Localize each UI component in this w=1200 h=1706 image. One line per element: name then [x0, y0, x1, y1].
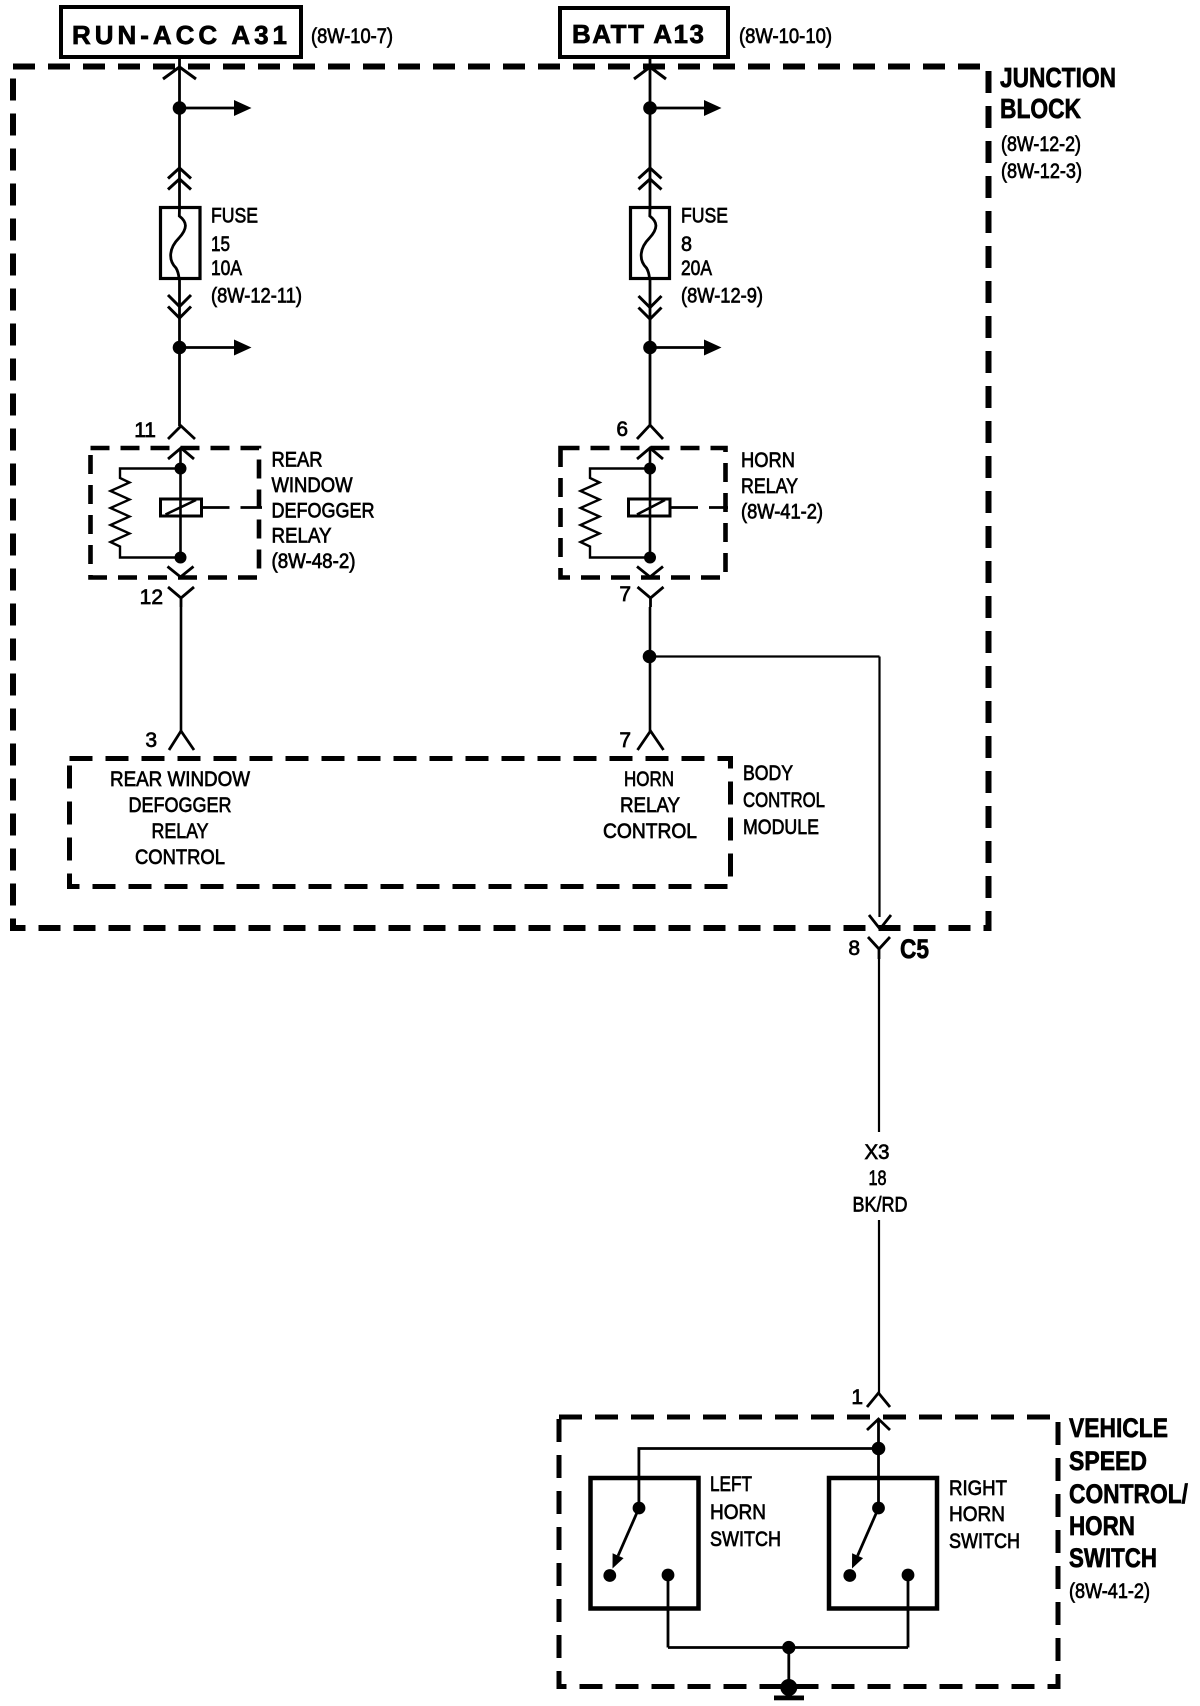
pin 7 (BCM horn relay control) [619, 729, 663, 752]
label: HORN RELAY CONTROL [603, 768, 697, 843]
svg-text:X3: X3 [865, 1141, 890, 1164]
wire: left lower branch arrow [180, 340, 252, 356]
wire: RUN-ACC A31 feed down to fuse 15 [178, 59, 181, 208]
svg-text:1: 1 [851, 1386, 863, 1409]
svg-text:FUSE: FUSE [681, 205, 728, 228]
pin 7 (relay K1 output) [619, 583, 663, 607]
junction block boundary [13, 67, 989, 929]
svg-text:15: 15 [211, 233, 230, 256]
body control module boundary [70, 759, 731, 887]
pin 3 [145, 729, 194, 752]
connector C5 arrow at junction block exit [869, 915, 891, 929]
label (8W-10-7) [311, 25, 393, 48]
svg-text:SWITCH: SWITCH [949, 1530, 1020, 1553]
node: S2 common terminal dot [872, 1502, 885, 1515]
power feed box BATT A13 [560, 8, 728, 57]
wire: X3 down to horn switch pin 1 [878, 1220, 880, 1393]
wire: right lower branch arrow [650, 340, 722, 356]
label: LEFT HORN SWITCH [710, 1473, 781, 1551]
svg-text:7: 7 [619, 583, 631, 606]
svg-text:C5: C5 [900, 934, 929, 964]
wire: relay pin 12 to BCM pin 3 [180, 607, 183, 731]
node: left feed splice dot [173, 101, 187, 115]
wire: ground drop [787, 1648, 790, 1688]
connector chevron inside relay K1 [637, 448, 663, 459]
svg-text:HORN: HORN [710, 1501, 766, 1524]
svg-text:(8W-12-3): (8W-12-3) [1001, 160, 1082, 183]
label: HORN RELAY (8W-41-2) [741, 449, 823, 524]
wire: fuse 8 to horn relay pin 6 [649, 278, 652, 425]
node: S1 lower-left terminal dot [603, 1569, 616, 1582]
svg-text:BODY: BODY [743, 762, 793, 785]
svg-text:CONTROL/: CONTROL/ [1069, 1479, 1188, 1509]
svg-text:8: 8 [848, 937, 860, 960]
switch S1 LEFT HORN SWITCH box [591, 1478, 699, 1609]
pin 1 [851, 1386, 890, 1409]
svg-text:HORN: HORN [1069, 1511, 1135, 1541]
node: relay K1 top dot [644, 463, 656, 475]
vehicle speed control / horn switch boundary [559, 1417, 1058, 1687]
wire: relay K1 contact control stub (dashed) [670, 506, 728, 509]
connector chevron at relay K2 exit [168, 567, 194, 578]
svg-text:(8W-41-2): (8W-41-2) [1069, 1580, 1150, 1603]
wire: relay K2 contact control stub (dashed) [202, 506, 263, 509]
pin 6 [616, 418, 663, 441]
svg-text:20A: 20A [681, 257, 712, 280]
connector chevron at relay K1 exit [637, 567, 663, 578]
wire: left feed branch arrow [180, 100, 252, 116]
svg-text:FUSE: FUSE [211, 205, 258, 228]
svg-text:CONTROL: CONTROL [743, 789, 825, 812]
svg-text:18: 18 [869, 1167, 887, 1190]
svg-text:RELAY: RELAY [152, 820, 209, 843]
connector: double chevron below fuse 15 [168, 295, 191, 318]
svg-text:(8W-10-10): (8W-10-10) [739, 25, 832, 48]
svg-text:SWITCH: SWITCH [710, 1528, 781, 1551]
svg-text:RUN-ACC A31: RUN-ACC A31 [72, 20, 287, 50]
node: right feed splice dot [643, 101, 657, 115]
label: RIGHT HORN SWITCH [949, 1477, 1020, 1553]
pin 11 [134, 419, 195, 442]
svg-text:(8W-10-7): (8W-10-7) [311, 25, 393, 48]
connector chevron at junction block entry (right) [634, 67, 666, 79]
svg-text:(8W-12-9): (8W-12-9) [681, 285, 763, 308]
node: S2 lower-left terminal dot [843, 1569, 856, 1582]
node: left lower splice dot [173, 341, 187, 355]
node: right lower splice dot [643, 341, 657, 355]
label: REAR WINDOW DEFOGGER RELAY (8W-48-2) [272, 449, 375, 574]
fuse F8 [631, 208, 670, 279]
node: S1 common terminal dot [633, 1502, 646, 1515]
wire: S1 output down to ground bus [667, 1575, 670, 1648]
pin 8 [848, 937, 860, 960]
label: connector C5 [900, 934, 929, 964]
svg-text:HORN: HORN [949, 1503, 1005, 1526]
label: FUSE 15 10A (8W-12-11) [211, 205, 302, 308]
svg-text:REAR WINDOW: REAR WINDOW [110, 768, 250, 791]
relay K2 coil (zigzag) [111, 469, 181, 558]
label: VEHICLE SPEED CONTROL/ HORN SWITCH (8W-41-2) [1069, 1413, 1188, 1603]
svg-text:BK/RD: BK/RD [853, 1194, 908, 1217]
svg-text:WINDOW: WINDOW [272, 474, 353, 497]
connector chevron at junction block entry (left) [163, 67, 196, 79]
wire: relay K1 internal vertical [649, 448, 652, 558]
svg-text:DEFOGGER: DEFOGGER [272, 500, 375, 523]
svg-text:7: 7 [619, 729, 631, 752]
svg-text:JUNCTION: JUNCTION [1000, 62, 1116, 93]
relay K2 contact [161, 499, 202, 516]
svg-text:CONTROL: CONTROL [603, 820, 697, 843]
wire: right feed branch arrow [650, 100, 722, 116]
wire: horn feed horizontal run to C5 [650, 655, 880, 657]
wire: horn feed vertical run down to C5 [878, 657, 880, 918]
svg-text:3: 3 [145, 729, 157, 752]
svg-text:(8W-12-2): (8W-12-2) [1001, 133, 1081, 156]
relay K2 REAR WINDOW DEFOGGER RELAY boundary [91, 448, 260, 578]
svg-text:REAR: REAR [272, 449, 323, 472]
switch S2 RIGHT HORN SWITCH box [829, 1478, 937, 1609]
svg-text:VEHICLE: VEHICLE [1069, 1413, 1168, 1443]
node: relay K2 bottom dot [175, 552, 187, 564]
wire: pin 1 down to switch splice [877, 1419, 880, 1508]
wire: ground bus horizontal [668, 1646, 908, 1649]
connector: double chevron above fuse 15 [168, 168, 191, 190]
svg-text:LEFT: LEFT [710, 1473, 752, 1496]
wire: relay K2 internal vertical [179, 448, 182, 558]
svg-text:11: 11 [134, 419, 156, 442]
node: relay K2 top dot [175, 463, 187, 475]
svg-text:HORN: HORN [624, 768, 674, 791]
pin 12 [140, 586, 194, 609]
svg-text:12: 12 [140, 586, 163, 609]
wire: branch to left horn switch [639, 1449, 879, 1509]
label (8W-10-10) [739, 25, 832, 48]
svg-text:RIGHT: RIGHT [949, 1477, 1007, 1500]
connector: double chevron below fuse 8 [639, 296, 662, 319]
svg-text:RELAY: RELAY [272, 525, 332, 548]
wire: C5 down to label X3 [878, 959, 880, 1132]
relay K1 HORN RELAY boundary [561, 448, 726, 578]
label: BODY CONTROL MODULE [743, 762, 825, 839]
connector: double chevron above fuse 8 [639, 168, 662, 190]
svg-text:HORN: HORN [741, 449, 795, 472]
svg-text:RELAY: RELAY [620, 794, 680, 817]
switch S2 arm with arrowhead [852, 1508, 879, 1569]
node: S1 lower-right terminal dot [662, 1569, 675, 1582]
relay K1 contact [629, 499, 671, 516]
svg-text:(8W-48-2): (8W-48-2) [272, 550, 356, 573]
label: circuit X3 18 BK/RD [853, 1141, 908, 1217]
connector chevron inside horn switch box [867, 1419, 890, 1430]
label: FUSE 8 20A (8W-12-9) [681, 205, 763, 308]
svg-text:RELAY: RELAY [741, 475, 798, 498]
connector C5 chevron below junction block [868, 937, 890, 959]
svg-text:BLOCK: BLOCK [1000, 93, 1081, 124]
power feed box RUN-ACC A31 [61, 7, 301, 57]
switch S1 arm with arrowhead [613, 1508, 640, 1569]
relay K1 coil (zigzag) [581, 469, 651, 558]
svg-text:8: 8 [681, 233, 692, 256]
node: S2 lower-right terminal dot [902, 1569, 915, 1582]
node: horn switch splice dot [872, 1442, 886, 1456]
svg-text:MODULE: MODULE [743, 816, 819, 839]
svg-text:SPEED: SPEED [1069, 1446, 1147, 1476]
svg-text:(8W-41-2): (8W-41-2) [741, 501, 823, 524]
node: relay K1 bottom dot [644, 552, 656, 564]
wire: BATT A13 feed down to fuse 8 [649, 57, 652, 208]
wire: S2 output down to ground bus [907, 1575, 910, 1648]
svg-text:CONTROL: CONTROL [135, 846, 225, 869]
svg-text:DEFOGGER: DEFOGGER [129, 794, 232, 817]
junction block label [1000, 62, 1116, 183]
svg-text:6: 6 [616, 418, 628, 441]
fuse F15 [161, 208, 201, 279]
label: REAR WINDOW DEFOGGER RELAY CONTROL [110, 768, 250, 869]
wire: fuse 15 to relay pin 11 [178, 278, 181, 426]
svg-text:BATT A13: BATT A13 [572, 19, 704, 49]
ground [774, 1679, 804, 1700]
svg-text:SWITCH: SWITCH [1069, 1543, 1157, 1573]
node: horn feed junction dot [643, 650, 657, 664]
svg-text:(8W-12-11): (8W-12-11) [211, 285, 302, 308]
wire: relay pin 7 down to BCM pin 7 [649, 607, 652, 731]
svg-text:10A: 10A [211, 257, 242, 280]
connector chevron inside relay K2 [168, 448, 194, 459]
node: ground bus junction dot [782, 1641, 795, 1654]
